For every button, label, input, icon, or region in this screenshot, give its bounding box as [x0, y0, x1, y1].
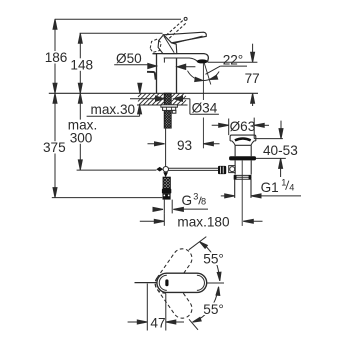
dim diam50 left arrow [148, 63, 157, 68]
dim max.180 right arrow [243, 219, 262, 223]
label diam34 [190, 101, 219, 116]
svg-text:77: 77 [245, 71, 260, 86]
dim max.180 left arrow [140, 219, 165, 223]
drain tailpipe [235, 179, 251, 198]
top-view solid handle outer outline [157, 273, 207, 292]
drain plug dome [235, 139, 251, 141]
dim 77 lower arrow [251, 93, 255, 106]
washer under deck [161, 105, 178, 107]
svg-text:G: G [182, 193, 193, 208]
svg-text:40-53: 40-53 [263, 143, 298, 158]
label 55deg upper [202, 252, 228, 267]
dim G1-1/4 arrow [221, 194, 301, 198]
rod ball housing on drain [229, 166, 235, 173]
deck hatching right of shank [172, 93, 186, 105]
svg-text:22°: 22° [223, 53, 244, 68]
svg-text:Ø63: Ø63 [230, 119, 256, 134]
rod adjuster knurled knob [218, 166, 226, 174]
top-view dashed handle rotated down 55deg [151, 270, 195, 322]
label 22deg with leader [206, 53, 248, 75]
dim max.30 upper arrow [138, 83, 142, 93]
threaded mounting shank [164, 93, 171, 128]
svg-text:max.30: max.30 [91, 102, 136, 117]
pop-up pull rod below shank [165, 128, 167, 166]
pull-rod ball joint [156, 167, 168, 178]
label G 3/8 [179, 192, 209, 209]
svg-text:55°: 55° [203, 252, 224, 267]
label 148 [69, 58, 94, 73]
deck top surface line [49, 92, 258, 94]
aerator at spout outlet [197, 59, 208, 63]
svg-text:1: 1 [281, 177, 286, 187]
55deg upper rotation arc [189, 237, 221, 281]
dim G3/8 arrows [153, 207, 184, 211]
supply tube G3/8 end [164, 200, 172, 214]
svg-text:3: 3 [193, 192, 198, 202]
dim 93 right arrow [203, 142, 219, 146]
dim 47 arrows [128, 320, 184, 324]
dim 148 dimension line with arrows [78, 33, 82, 93]
svg-text:47: 47 [150, 315, 165, 330]
svg-text:Ø50: Ø50 [116, 51, 142, 66]
label G1 1/4 [261, 177, 295, 194]
55deg lower rotation arc [189, 287, 220, 330]
dim 47 extension lines [147, 284, 166, 331]
label 47 [149, 315, 166, 330]
dim diam34 left arrow [130, 96, 164, 101]
aerator level extension line [208, 61, 258, 63]
dim 375 bottom reference line [52, 197, 163, 199]
braided supply hose [163, 177, 170, 188]
top-view spout stub [135, 282, 158, 284]
dim G1-1/4 tailpipe left arrow tail [0, 0, 1, 1]
horizontal pop-up rod [168, 168, 218, 170]
dim max.30 lower arrow and leader [87, 105, 142, 116]
label 186 [44, 50, 69, 65]
dim 186 dimension line with arrows [53, 19, 57, 93]
label max. 300 [67, 117, 98, 145]
dashed raised-lever handle [166, 17, 187, 38]
dim max.300 dimension line with arrows [78, 93, 82, 170]
dim 186 extension line (raised handle top level) [55, 18, 181, 20]
dim 93 left arrow [148, 142, 165, 146]
guide tab under nut [172, 110, 176, 113]
22deg slanted spray line [204, 63, 211, 85]
dim diam63 arrows [212, 118, 269, 139]
dashed raised-lever cap outline [150, 39, 161, 53]
svg-text:8: 8 [201, 196, 206, 206]
label 55deg lower [202, 302, 228, 317]
svg-text:4: 4 [289, 183, 294, 193]
svg-text:Ø34: Ø34 [192, 101, 218, 116]
mounting hex nut [163, 107, 176, 110]
dim 40-53 lower arrow and tick [256, 158, 286, 177]
dim 148 extension line (handle top level) [80, 32, 163, 34]
set-screw hook mark on body left [147, 72, 156, 80]
deck hatching left of shank [138, 93, 164, 105]
handle zero-position reference line [207, 282, 224, 284]
dim diam34 right arrow and leader [174, 96, 190, 114]
svg-text:148: 148 [70, 58, 93, 73]
top-view solid handle inner end arcs [159, 275, 204, 290]
svg-text:186: 186 [45, 50, 68, 65]
lever blade (front view) [164, 32, 207, 43]
top-view lever ridge mark [165, 279, 168, 286]
svg-text:55°: 55° [203, 302, 224, 317]
svg-text:93: 93 [177, 138, 192, 153]
faucet body outline [153, 54, 209, 94]
svg-text:G1: G1 [261, 180, 279, 195]
hose hex connector [163, 194, 171, 200]
drain body upper walls [235, 145, 251, 156]
drain flange cap [230, 135, 256, 145]
drain sealing ring [229, 156, 256, 160]
svg-text:300: 300 [70, 131, 93, 146]
top-view dashed handle rotated up 55deg [151, 245, 195, 297]
22deg angle arc with arrowheads [188, 71, 220, 82]
svg-text:max.180: max.180 [177, 214, 230, 229]
dim diam50 right arrow [177, 64, 195, 69]
drain body lower walls [235, 160, 251, 174]
dim max.180 left extension line [163, 213, 165, 225]
lever neck (front view) [158, 35, 177, 54]
svg-text:375: 375 [43, 140, 66, 155]
hose crimp collar [162, 189, 171, 194]
spout outlet extension line [202, 63, 204, 148]
dim max.300 bottom reference line [77, 169, 157, 171]
label diam50 [114, 51, 147, 66]
deck bottom line [137, 104, 188, 106]
drain coupling nut [234, 175, 252, 179]
dim 375 dimension line with arrows [53, 93, 57, 197]
dim 40-53 upper arrow and tick [254, 121, 283, 139]
drain centerline [241, 161, 243, 226]
dim 77 upper arrow [251, 44, 255, 63]
label 375 [42, 140, 67, 155]
